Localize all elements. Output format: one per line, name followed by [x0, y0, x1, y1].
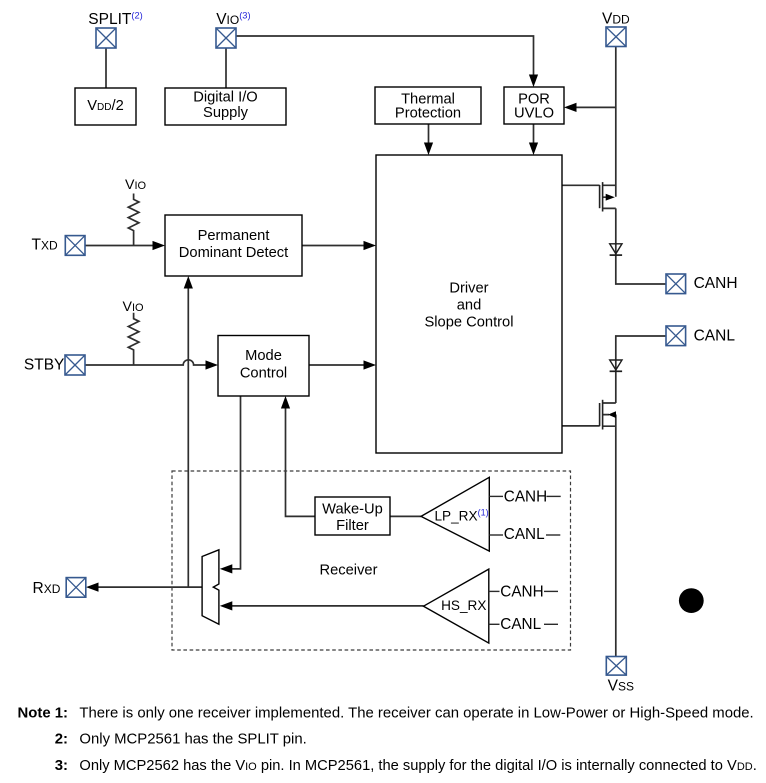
svg-text:There is only one receiver imp: There is only one receiver implemented. …	[79, 706, 753, 722]
svg-text:Supply: Supply	[203, 105, 249, 121]
svg-text:Digital I/O: Digital I/O	[193, 90, 257, 106]
svg-text:CANH: CANH	[500, 583, 543, 600]
svg-text:VIO: VIO	[125, 177, 147, 193]
svg-text:3:: 3:	[55, 758, 68, 774]
svg-text:SPLIT(2): SPLIT(2)	[88, 10, 142, 28]
svg-text:CANL: CANL	[500, 616, 541, 633]
svg-text:and: and	[457, 298, 482, 314]
svg-text:Only MCP2562 has the VIO pin.: Only MCP2562 has the VIO pin. In MCP2561…	[79, 758, 756, 774]
svg-text:UVLO: UVLO	[514, 106, 554, 122]
svg-text:Control: Control	[240, 366, 287, 382]
svg-text:RXD: RXD	[33, 580, 61, 597]
svg-text:CANL: CANL	[504, 526, 545, 543]
svg-text:Driver: Driver	[449, 281, 488, 297]
svg-text:Slope Control: Slope Control	[425, 315, 514, 331]
svg-text:VSS: VSS	[608, 677, 634, 694]
svg-text:VDD: VDD	[602, 11, 630, 28]
svg-text:2:: 2:	[55, 732, 68, 748]
svg-text:VIO(3): VIO(3)	[216, 10, 250, 28]
svg-text:CANH: CANH	[504, 488, 547, 505]
svg-text:Protection: Protection	[395, 106, 461, 122]
svg-text:Wake-Up: Wake-Up	[322, 502, 383, 518]
svg-text:STBY: STBY	[24, 357, 64, 374]
svg-text:CANH: CANH	[694, 275, 738, 292]
svg-text:Dominant Detect: Dominant Detect	[179, 245, 288, 261]
svg-text:Mode: Mode	[245, 348, 282, 364]
svg-text:Only MCP2561 has the SPLIT pin: Only MCP2561 has the SPLIT pin.	[79, 732, 306, 748]
svg-text:TXD: TXD	[32, 237, 58, 254]
svg-text:Note 1:: Note 1:	[18, 706, 68, 722]
svg-text:Filter: Filter	[336, 518, 369, 534]
svg-text:VIO: VIO	[123, 299, 145, 315]
svg-text:HS_RX: HS_RX	[441, 598, 486, 613]
svg-text:Receiver: Receiver	[320, 563, 378, 579]
svg-text:Permanent: Permanent	[198, 228, 270, 244]
svg-text:CANL: CANL	[694, 328, 736, 345]
